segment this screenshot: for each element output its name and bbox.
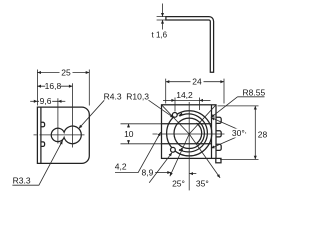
svg-text:10: 10 (124, 129, 134, 139)
horizontal centerline (153, 133, 225, 135)
leader R4.3 (79, 100, 104, 128)
svg-text:R10,3: R10,3 (126, 92, 149, 102)
dim 14,2 left arrow (163, 99, 175, 101)
radial 25 line (170, 134, 189, 176)
terminal bottom (216, 144, 221, 150)
dim 10 lower arrow (128, 140, 130, 144)
rotation arrow arc (179, 114, 207, 152)
dim texts left view (13, 67, 122, 185)
svg-text:8,9: 8,9 (142, 167, 154, 177)
svg-text:t 1,6: t 1,6 (152, 31, 168, 40)
big circle R10,3 (167, 111, 212, 156)
radial 35 line (189, 134, 220, 178)
dim 10 upper arrow (128, 124, 130, 128)
text gaps right view (191, 78, 246, 138)
plate outline (37, 107, 89, 163)
svg-text:R4.3: R4.3 (104, 91, 122, 101)
terminal top (216, 117, 221, 123)
dim texts right view (115, 77, 268, 189)
keyhole slot (union of R3.3 and R4.3 circles) (51, 126, 81, 144)
svg-text:35°: 35° (196, 179, 209, 189)
rotation arrow lower head (179, 148, 184, 151)
dim 10 extension upper (121, 123, 162, 125)
slot horizontal centerline (34, 134, 85, 136)
leader 8,9 diagonal (149, 153, 172, 183)
dim 9,6 left arrow (30, 100, 37, 102)
leader 4,2 (115, 132, 161, 172)
leg bottom right (216, 158, 221, 162)
svg-text:25°: 25° (172, 179, 185, 189)
dim 24 extensions (166, 79, 224, 104)
dim 9,6 extension (57, 98, 59, 126)
30deg upper line (211, 118, 246, 133)
30deg lower line (211, 133, 246, 148)
svg-text:9,6: 9,6 (40, 96, 52, 106)
svg-text:R8.55: R8.55 (243, 87, 266, 97)
dim 14,2 extensions (175, 98, 199, 112)
svg-text:28: 28 (258, 130, 268, 140)
svg-text:30°: 30° (232, 128, 245, 138)
svg-text:24: 24 (192, 77, 202, 87)
dim 25 extension lines (37, 70, 89, 106)
flat edge lower (162, 143, 212, 145)
vertical centerline (188, 102, 190, 190)
t 1,6 extension ticks (157, 17, 169, 20)
tab upper (41, 122, 45, 127)
diagonal V right (189, 105, 216, 134)
svg-text:16,8: 16,8 (45, 81, 62, 91)
svg-text:R3.3: R3.3 (13, 175, 31, 185)
svg-text:25: 25 (61, 67, 71, 77)
terminal middle (216, 131, 221, 137)
svg-text:4,2: 4,2 (115, 162, 127, 172)
tab lower (41, 142, 45, 147)
flat edge upper (162, 123, 212, 125)
inner circle (174, 118, 204, 148)
dim 14,2 line (175, 99, 199, 101)
dim 10 extension lower (121, 143, 162, 145)
body outline (162, 105, 217, 159)
dim 25 line (37, 72, 89, 74)
dim 28 line (254, 106, 256, 159)
big circle vertical centerline (72, 123, 74, 148)
dim 9,6 right arrow (58, 100, 65, 102)
dim 9,6 line (37, 100, 58, 102)
inner right arc (196, 123, 201, 143)
L profile outline (166, 17, 214, 73)
dim 16,8 line (37, 85, 72, 87)
band cap upper (172, 113, 177, 118)
band cap lower (171, 147, 176, 152)
text gaps (39, 69, 73, 106)
leader R10,3 (149, 100, 174, 118)
dim 28 extensions (218, 106, 259, 159)
svg-text:14,2: 14,2 (176, 90, 193, 100)
leader 8,9 horizontal with arrow to 25 line (155, 172, 171, 174)
bend line (40, 107, 42, 163)
t 1,6 lower arrow (162, 20, 164, 30)
t 1,6 upper arrow (162, 4, 164, 17)
terminal strip line (211, 105, 213, 159)
diagonal V left (162, 105, 190, 134)
dim 16,8 extension (72, 83, 74, 122)
rotation arrow upper head (178, 113, 183, 116)
dim 25deg right stub (189, 173, 196, 175)
small circle vertical centerline (57, 127, 59, 144)
dim 14,2 right arrow (199, 99, 210, 101)
dim 24 line (166, 81, 224, 83)
leader R3.3 (12, 141, 62, 186)
leader R8.55 (238, 96, 265, 98)
